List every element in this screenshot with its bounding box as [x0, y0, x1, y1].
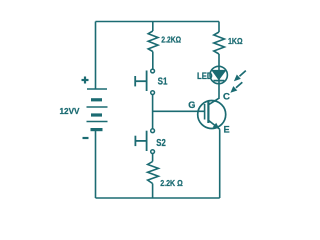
wire bottom rail	[96, 197, 220, 199]
wire emitter to bottom rail	[219, 129, 221, 198]
switch S2	[135, 129, 154, 154]
svg-text:C: C	[223, 91, 230, 102]
svg-text:LED: LED	[197, 71, 213, 81]
svg-text:12VV: 12VV	[60, 106, 80, 116]
svg-text:G: G	[188, 100, 195, 110]
wire switch S1 to node/junction	[152, 94, 154, 129]
battery minus sign	[83, 137, 89, 139]
wire left branch top (battery +)	[95, 22, 97, 90]
switch S1	[135, 69, 154, 94]
svg-text:2.2K Ω: 2.2K Ω	[160, 178, 183, 188]
wire middle branch from top rail	[152, 22, 154, 32]
wire resistor R2 to LED and collector	[218, 54, 220, 98]
svg-text:2.2KΩ: 2.2KΩ	[161, 35, 181, 45]
svg-text:1KΩ: 1KΩ	[228, 36, 243, 46]
LED light arrow 1	[234, 71, 246, 82]
wire base connection to transistor	[153, 110, 205, 112]
svg-text:S1: S1	[158, 77, 168, 88]
wire top rail	[96, 21, 220, 23]
LED light arrow 2	[230, 82, 242, 93]
resistor R3 2.2K (bottom)	[148, 162, 159, 184]
battery plus sign	[82, 77, 89, 84]
svg-text:S2: S2	[156, 138, 166, 149]
wire resistor R3 to bottom rail	[152, 184, 154, 199]
svg-text:E: E	[224, 124, 230, 134]
wire left branch bottom	[95, 130, 97, 198]
transistor Q1	[198, 98, 226, 130]
resistor R1 2.2K (top middle)	[148, 31, 158, 52]
wire resistor R1 to switch S1	[152, 52, 154, 70]
resistor R2 1K	[214, 32, 225, 54]
battery B1 12V	[87, 89, 108, 130]
wire switch S2 to resistor R3	[152, 153, 154, 161]
LED D1	[210, 66, 227, 83]
wire right branch from top rail	[218, 22, 220, 33]
